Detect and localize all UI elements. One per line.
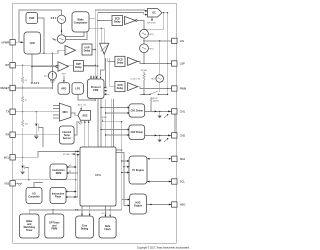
bus instruction rom: [66, 165, 77, 168]
svg-text:LSP: LSP: [180, 62, 185, 66]
pin PWM: [172, 86, 187, 91]
wire CH2 driver feeds: [100, 129, 129, 137]
svg-text:Delay: Delay: [84, 50, 91, 53]
transistor Q2 tx clamp: [35, 112, 43, 147]
block LDO: [24, 32, 41, 54]
comparator U2 ocd1: [128, 57, 138, 65]
mux M1: [59, 103, 71, 121]
wire ADC clk: [78, 103, 87, 110]
svg-text:VPWR: VPWR: [1, 40, 9, 44]
svg-text:POR: POR: [29, 17, 34, 20]
block HFO: [58, 83, 70, 94]
wire bandgap to wake comparator: [62, 24, 85, 37]
wire data flash feeds: [102, 206, 111, 217]
svg-text:Delay: Delay: [75, 66, 82, 69]
wire comparator2 out to PWM: [138, 87, 172, 90]
svg-text:LDO: LDO: [30, 42, 35, 45]
svg-text:+: +: [66, 49, 67, 51]
wire FSM right inputs: [104, 87, 110, 96]
svg-text:Delay: Delay: [117, 87, 124, 90]
resistor RDIV wire: [159, 41, 161, 92]
pin INT: [5, 63, 15, 68]
block instruction ROM: [50, 164, 67, 180]
svg-text:RESET: RESET: [1, 86, 10, 90]
wire I2C bus stubs: [102, 120, 124, 210]
block OVP delay: [74, 61, 84, 72]
svg-text:−: −: [129, 63, 130, 65]
pin RESET: [1, 85, 16, 90]
svg-text:CH1 Driver: CH1 Driver: [131, 110, 143, 113]
svg-text:−: −: [129, 89, 130, 91]
bus instruction flash 2: [65, 196, 78, 198]
arrow CH1 diag: [164, 114, 168, 118]
svg-text:Controller: Controller: [28, 195, 39, 198]
wire gp timer top: [52, 210, 54, 214]
block LFO: [72, 83, 83, 94]
label 20k 2R: [131, 79, 141, 81]
svg-text:3.3 V: 3.3 V: [34, 82, 40, 85]
wire bus A: [94, 10, 96, 79]
svg-text:ADC Clk: ADC Clk: [78, 103, 87, 106]
wire comparator1 out to LSP: [138, 61, 172, 64]
wire vbg to wake comparator: [66, 32, 87, 40]
pin HSG: [172, 202, 186, 207]
block IO controller: [26, 188, 42, 204]
wire RX line: [15, 134, 59, 136]
wire OCD2 feed: [110, 58, 115, 87]
wire CH2 out: [145, 134, 172, 136]
svg-text:0.8 V: 0.8 V: [51, 17, 57, 20]
svg-text:−: −: [66, 53, 67, 55]
resistor CH1 top: [150, 97, 160, 112]
pin SDA: [172, 156, 186, 161]
node 0.8V reference: [51, 15, 66, 23]
wire ADC to CPU: [84, 120, 90, 147]
label VPWR mid: [101, 117, 108, 119]
svg-text:MPQT2B: MPQT2B: [147, 22, 156, 24]
wire core debug feeds: [81, 206, 90, 216]
pin LSP: [172, 61, 185, 66]
svg-text:−: −: [125, 22, 126, 24]
block OCD delay 2: [115, 82, 125, 92]
pin RX: [6, 132, 16, 137]
svg-text:MUX: MUX: [62, 111, 68, 114]
block SCD delay: [112, 16, 123, 26]
comparator U3 ocd2: [128, 83, 138, 91]
svg-text:Flash: Flash: [55, 195, 62, 198]
block wake comparator: [72, 12, 89, 32]
svg-text:ROM: ROM: [56, 172, 62, 175]
wire LDO output down: [31, 54, 33, 83]
wire wake comp output to rail: [89, 10, 147, 19]
wire EP16A to CPU: [74, 154, 80, 156]
svg-text:Delay: Delay: [117, 62, 124, 65]
resistor divider VPWR: [141, 70, 148, 95]
wire SDA: [147, 158, 171, 160]
node 3.3V: [31, 82, 39, 85]
wire vbg up arrow: [61, 29, 63, 34]
adc A1: [78, 110, 91, 120]
svg-text:Copyright © 2017, Texas Instru: Copyright © 2017, Texas Instruments Inco…: [137, 246, 190, 249]
wire IO controller top: [34, 183, 43, 188]
wire LIN line: [144, 40, 172, 41]
bus instruction rom 2: [66, 171, 78, 174]
svg-text:I²C Engine: I²C Engine: [132, 168, 144, 172]
block wake watchdog timer: [20, 214, 40, 238]
wire OC bottom arrow: [151, 17, 153, 21]
block core debug: [76, 216, 94, 238]
block internal temp sensor: [59, 126, 74, 144]
svg-text:16 / 8: 16 / 8: [102, 213, 108, 215]
wire SCD input: [97, 20, 112, 21]
svg-text:HFO: HFO: [61, 88, 66, 91]
wire HFO trim arrow: [62, 74, 67, 83]
wire temp sensor out: [74, 121, 77, 135]
wire POR output: [38, 18, 45, 53]
wire LFO bottom stub: [78, 94, 96, 100]
ground below ADC: [78, 120, 82, 124]
resistor chain left: [22, 65, 24, 157]
wire 3.3V rail: [32, 50, 65, 54]
svg-text:PWM: PWM: [180, 87, 186, 91]
svg-text:VSS: VSS: [4, 181, 9, 185]
svg-text:OC: OC: [152, 12, 156, 15]
svg-text:Debug: Debug: [81, 227, 89, 230]
block POR: [26, 13, 38, 24]
wire lin driver output to FSM: [101, 54, 105, 75]
label MPQT2B: [147, 22, 156, 24]
svg-text:Engine: Engine: [134, 204, 143, 207]
wire MUX to ADC: [71, 113, 78, 115]
ground below RPU: [50, 80, 54, 84]
svg-text:LFO: LFO: [75, 88, 80, 91]
node VBG reference: [52, 35, 65, 43]
label EP16A: [63, 153, 75, 156]
current source RPU wires: [51, 53, 53, 88]
svg-text:Timer: Timer: [26, 229, 33, 232]
svg-text:CH2 Driver: CH2 Driver: [131, 131, 143, 134]
svg-text:TX: TX: [6, 110, 10, 114]
wire VSS rail: [13, 179, 77, 180]
switch SW wake: [140, 91, 168, 100]
wire SCL: [147, 181, 171, 183]
resistor RPU2: [140, 44, 154, 53]
wire MCLR line: [15, 150, 79, 158]
svg-text:Sensor: Sensor: [63, 137, 71, 140]
svg-text:HFO: HFO: [62, 74, 67, 76]
ground CH1: [158, 111, 162, 118]
block CH1 driver: [129, 104, 145, 117]
block data flash: [99, 217, 116, 238]
wire rail 2 to OC input: [98, 13, 148, 16]
wire OVP out to bus: [83, 65, 98, 66]
block GP timer: [45, 214, 64, 238]
svg-text:CH1: CH1: [180, 109, 186, 113]
block OCD delay 1: [115, 56, 125, 66]
svg-text:SDA: SDA: [180, 157, 186, 161]
resistor RPU1 circle chain: [143, 38, 144, 63]
bus instruction flash: [65, 191, 77, 193]
svg-text:Flash: Flash: [104, 228, 111, 231]
svg-text:+: +: [128, 60, 129, 62]
comparator U1 scd: [125, 17, 138, 25]
gate OC: [148, 9, 163, 18]
svg-text:Comparator: Comparator: [74, 21, 88, 24]
block CPU: [80, 147, 116, 206]
block protocol FSM: [87, 79, 104, 99]
pin VPWR: [1, 40, 15, 45]
block CH2 driver: [129, 125, 145, 140]
wire TX line: [15, 111, 59, 112]
svg-text:FSM: FSM: [93, 89, 98, 92]
pin MCL: [4, 155, 16, 160]
svg-text:Delay: Delay: [114, 20, 121, 23]
label resistor values: [25, 80, 29, 125]
ground below Q1: [20, 171, 25, 174]
block HSG engine: [130, 194, 147, 214]
wire bottom rail: [29, 209, 121, 214]
wire WDG left arrows: [122, 199, 130, 207]
copyright: [137, 246, 190, 249]
svg-text:+: +: [125, 19, 126, 21]
wire VPWR pin to LDO: [15, 41, 24, 43]
svg-text:VPWR: VPWR: [101, 117, 108, 119]
pin TX: [6, 109, 15, 114]
ground below Q2: [34, 136, 39, 139]
wire MUX inputs: [53, 106, 59, 119]
svg-text:EP16A: EP16A: [63, 153, 70, 156]
wire HSG: [147, 204, 172, 206]
wire OCD1 feed: [108, 58, 115, 61]
pin VSS: [4, 181, 15, 186]
wire OC output down: [143, 12, 168, 94]
resistor RDIV: [151, 75, 163, 83]
svg-text:BAT42: BAT42: [153, 99, 160, 102]
svg-text:CPU: CPU: [95, 173, 101, 177]
pin LIN: [172, 38, 184, 43]
wire wake comp to lin driver: [89, 28, 104, 44]
svg-text:INT: INT: [5, 63, 10, 67]
svg-text:+: +: [128, 85, 129, 87]
svg-text:LIN: LIN: [180, 39, 184, 43]
wire INT line: [15, 65, 95, 66]
svg-text:ADC: ADC: [82, 114, 87, 117]
svg-text:+: +: [59, 65, 60, 67]
wire I2C left arrows: [121, 160, 129, 174]
wire UVP out to bus: [92, 49, 96, 50]
wire CH1 driver feeds: [100, 107, 129, 115]
resistor RPU1: [140, 29, 154, 38]
pin CH1: [172, 109, 186, 114]
driver LIN output triangle: [100, 43, 109, 54]
wire memory bus verticals: [75, 151, 78, 197]
svg-text:(4 kΩ 2 R): (4 kΩ 2 R): [131, 79, 141, 81]
comparator T2 ovp: [56, 62, 68, 72]
ground CH2: [158, 135, 162, 142]
block UVP delay: [82, 44, 92, 55]
pin SCL: [172, 179, 186, 184]
wire VPWR rail top: [19, 10, 62, 42]
svg-text:−: −: [59, 69, 60, 71]
wire RESET line: [15, 87, 53, 88]
chip boundary: [13, 3, 177, 243]
wire T2 input: [31, 66, 56, 67]
wire CH pins vertical: [174, 111, 176, 135]
ground VSS: [15, 183, 21, 186]
wire SCD triangle out: [137, 21, 144, 30]
pin CH2: [172, 133, 186, 138]
svg-text:RX: RX: [6, 133, 10, 137]
wire CH1 out: [145, 110, 172, 112]
current source RPU: [44, 72, 57, 80]
svg-text:HSG: HSG: [180, 203, 186, 207]
block instruction flash: [50, 188, 66, 204]
comparator T1 uvp: [65, 46, 76, 56]
svg-text:CH2: CH2: [180, 133, 186, 137]
wire buses down to CPU: [98, 98, 113, 148]
block I2C engine: [129, 156, 147, 184]
wire bus C: [105, 58, 107, 88]
transistor Q1 mclr clamp: [21, 157, 28, 180]
wire bus B: [97, 13, 99, 80]
arrow CH2 diag: [164, 138, 168, 142]
svg-text:SCL: SCL: [180, 180, 186, 184]
wire FSM top ticks: [90, 75, 101, 79]
svg-text:PWM: PWM: [51, 227, 57, 230]
svg-text:MCL: MCL: [4, 155, 10, 159]
